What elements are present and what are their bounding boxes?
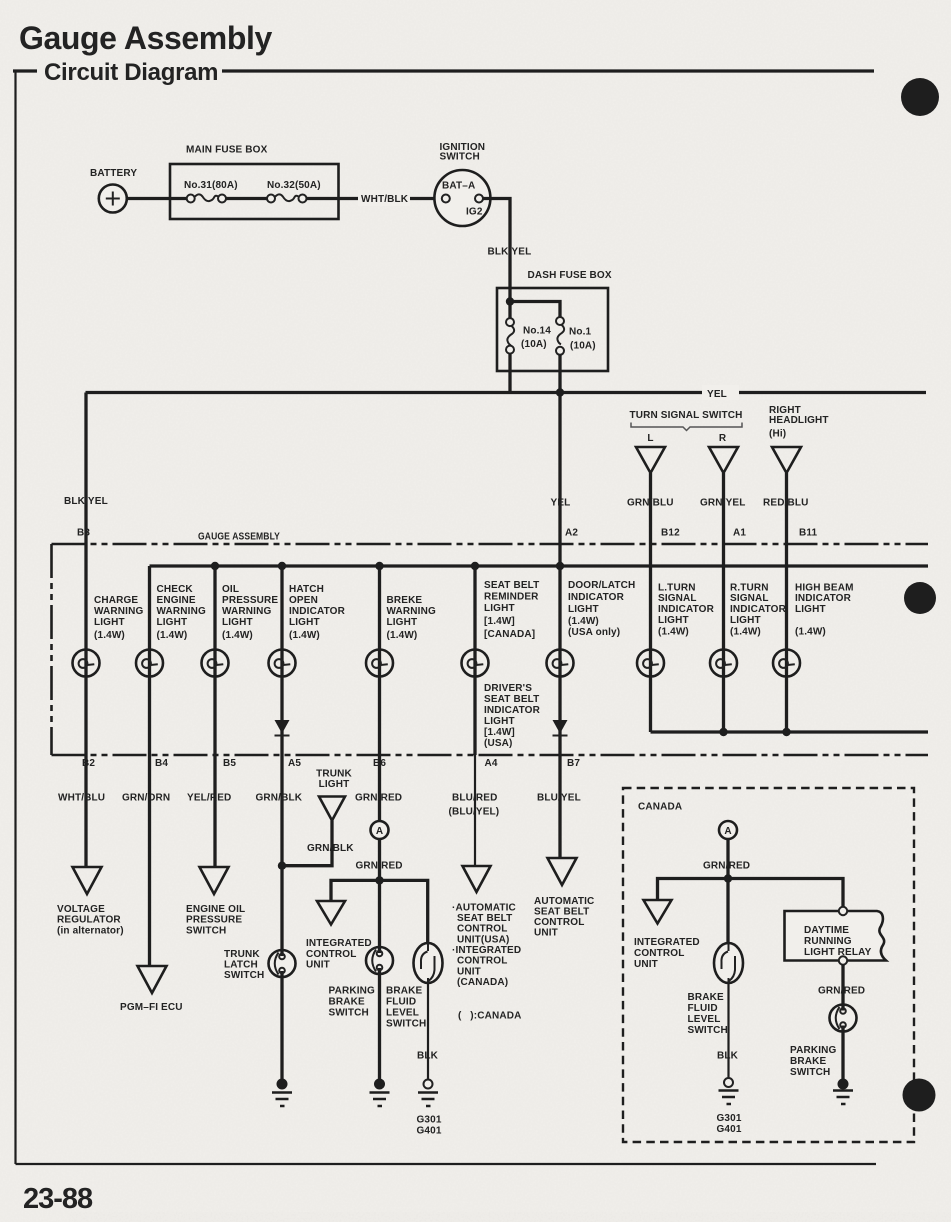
ground B6 column <box>370 1079 390 1107</box>
svg-text:A: A <box>724 826 731 837</box>
svg-text:A4: A4 <box>485 758 498 769</box>
junction bus at hatch column <box>278 562 286 570</box>
wire trunk light branch GRN/BLK <box>282 821 354 866</box>
svg-text:INTEGRATED: INTEGRATED <box>306 938 372 949</box>
registration dot bottom right <box>903 1079 936 1112</box>
svg-text:UNIT: UNIT <box>306 960 330 971</box>
svg-text:BREKE: BREKE <box>387 595 423 606</box>
svg-text:UNIT: UNIT <box>457 967 481 978</box>
svg-text:L.TURN: L.TURN <box>658 583 696 594</box>
svg-text:Gauge Assembly: Gauge Assembly <box>19 20 272 56</box>
svg-text:SIGNAL: SIGNAL <box>730 593 769 604</box>
junction bus at door latch column <box>556 562 564 570</box>
svg-text:LIGHT: LIGHT <box>568 604 599 615</box>
svg-text:CONTROL: CONTROL <box>457 956 508 967</box>
svg-text:BLK: BLK <box>717 1051 739 1062</box>
svg-text:(Hi): (Hi) <box>769 429 786 440</box>
fuse No.14 (10A) <box>506 318 551 354</box>
parking brake switch <box>366 947 393 974</box>
wire check engine column <box>148 566 151 755</box>
svg-text:R: R <box>719 433 727 444</box>
svg-text:[1.4W]: [1.4W] <box>484 616 515 627</box>
ground name G301 G401 <box>417 1115 442 1137</box>
wire BLK/YEL left feed to B3 and charge light <box>64 393 108 756</box>
fuse No.31 (80A) <box>184 180 238 203</box>
svg-text:No.1: No.1 <box>569 327 592 338</box>
wire RED/BLU headlight to B11 <box>763 473 809 732</box>
wire GRN/RED from connector A CANADA <box>703 839 750 944</box>
svg-text:INTEGRATED: INTEGRATED <box>634 937 700 948</box>
junction CANADA branch <box>724 874 732 882</box>
svg-text:RED/BLU: RED/BLU <box>763 498 809 509</box>
svg-text:SWITCH: SWITCH <box>688 1025 728 1036</box>
svg-text:BRAKE: BRAKE <box>329 997 365 1008</box>
wire inside dash fuse box to fuses <box>510 288 560 318</box>
svg-text:PARKING: PARKING <box>790 1045 836 1056</box>
svg-text:LIGHT: LIGHT <box>157 617 188 628</box>
header rule left tick <box>13 69 37 72</box>
svg-text:·AUTOMATIC: ·AUTOMATIC <box>452 903 516 914</box>
connector triangle CANADA integrated control unit <box>644 900 672 924</box>
svg-text:(USA only): (USA only) <box>568 627 620 638</box>
svg-text:HATCH: HATCH <box>289 584 324 595</box>
svg-text:[1.4W]: [1.4W] <box>484 727 515 738</box>
svg-text:No.32(50A): No.32(50A) <box>267 180 321 191</box>
wire GRN/RED B6 <box>355 755 402 1084</box>
fuse No.32 (50A) <box>267 180 321 203</box>
svg-text:SIGNAL: SIGNAL <box>658 593 697 604</box>
turn signal switch L connector triangle <box>636 447 665 473</box>
wire oil pressure column <box>213 566 216 755</box>
dash fuse box <box>497 270 612 371</box>
svg-text:CHECK: CHECK <box>157 584 194 595</box>
trunk light label <box>316 769 352 791</box>
L turn signal indicator light label <box>658 583 715 638</box>
svg-text:SEAT BELT: SEAT BELT <box>484 694 539 705</box>
svg-text:LIGHT: LIGHT <box>289 617 320 628</box>
wire GRN/YEL R turn to A1 <box>700 473 746 732</box>
svg-text:B2: B2 <box>82 758 95 769</box>
svg-text:CONTROL: CONTROL <box>634 948 685 959</box>
svg-text:GAUGE ASSEMBLY: GAUGE ASSEMBLY <box>198 532 280 543</box>
svg-text:REMINDER: REMINDER <box>484 592 539 603</box>
wire GRN/BLU L turn to B12 <box>627 473 674 732</box>
turn signal switch R connector triangle <box>709 447 738 473</box>
junction bottom bus R turn <box>719 728 727 736</box>
svg-text:23-88: 23-88 <box>23 1183 93 1215</box>
svg-text:LIGHT RELAY: LIGHT RELAY <box>804 947 872 958</box>
page frame left border <box>14 71 16 1164</box>
connector triangle to engine oil pressure switch <box>200 867 229 894</box>
svg-text:SWITCH: SWITCH <box>329 1008 369 1019</box>
CANADA integrated control unit label <box>634 937 700 970</box>
svg-text:GRN/RED: GRN/RED <box>356 861 403 872</box>
wire WHT/BLU B2 to voltage regulator <box>58 755 105 867</box>
svg-text:CONTROL: CONTROL <box>457 924 508 935</box>
svg-text:(1.4W): (1.4W) <box>289 630 320 641</box>
wire GRN/BLK A5 to trunk latch switch and ground <box>256 755 303 1084</box>
svg-text:INDICATOR: INDICATOR <box>484 705 541 716</box>
svg-text:TURN SIGNAL SWITCH: TURN SIGNAL SWITCH <box>629 410 742 421</box>
diode hatch open column <box>275 720 290 736</box>
trunk latch switch <box>269 950 296 977</box>
wire YEL/RED B5 to engine oil pressure switch <box>187 755 231 867</box>
svg-text:DOOR/LATCH: DOOR/LATCH <box>568 580 635 591</box>
svg-text:SEAT BELT: SEAT BELT <box>534 907 589 918</box>
bulb R turn signal indicator light <box>710 650 737 677</box>
svg-text:No.31(80A): No.31(80A) <box>184 180 238 191</box>
svg-text:CONTROL: CONTROL <box>534 917 585 928</box>
svg-text:SWITCH: SWITCH <box>790 1067 830 1078</box>
CANADA parking brake switch <box>830 1005 857 1032</box>
R turn signal indicator light label <box>730 583 787 638</box>
junction bus at brake warning column <box>375 562 383 570</box>
connector triangle to integrated control unit <box>317 901 345 925</box>
svg-text:OPEN: OPEN <box>289 595 318 606</box>
CANADA parking brake switch label <box>790 1045 836 1078</box>
seat belt reminder light label <box>484 580 539 640</box>
svg-text:OIL: OIL <box>222 584 239 595</box>
brake warning light label <box>387 595 436 641</box>
bulb charge warning light <box>73 650 100 677</box>
voltage regulator label <box>57 904 124 937</box>
svg-text:GRN/BLK: GRN/BLK <box>307 843 354 854</box>
main fuse box <box>170 145 339 220</box>
junction fuse No.1 wire and feed bus <box>556 388 564 396</box>
svg-text:TRUNK: TRUNK <box>224 949 260 960</box>
svg-text:IG2: IG2 <box>466 207 483 218</box>
svg-text:(1.4W): (1.4W) <box>568 616 599 627</box>
svg-text:A: A <box>376 826 383 837</box>
svg-text:(1.4W): (1.4W) <box>658 627 689 638</box>
bulb L turn signal indicator light <box>637 650 664 677</box>
registration dot top right <box>901 78 939 116</box>
daytime running light relay <box>785 907 887 965</box>
svg-text:GRN/BLK: GRN/BLK <box>256 793 303 804</box>
svg-text:SWITCH: SWITCH <box>386 1019 426 1030</box>
wire fuse No.1 down through feed bus (YEL to A2) <box>551 355 571 566</box>
svg-text:UNIT: UNIT <box>534 928 558 939</box>
CANADA brake fluid level switch label <box>688 992 728 1036</box>
svg-text:UNIT(USA): UNIT(USA) <box>457 935 509 946</box>
connector triangle to voltage regulator <box>73 867 102 894</box>
svg-text:SWITCH: SWITCH <box>224 970 264 981</box>
svg-text:A1: A1 <box>733 528 746 539</box>
svg-text:YEL: YEL <box>707 389 727 400</box>
svg-text:(BLU/YEL): (BLU/YEL) <box>449 807 500 818</box>
svg-text:WARNING: WARNING <box>94 606 143 617</box>
svg-text:HEADLIGHT: HEADLIGHT <box>769 415 829 426</box>
svg-text:G401: G401 <box>717 1124 742 1135</box>
svg-text:RUNNING: RUNNING <box>804 936 852 947</box>
svg-text:BRAKE: BRAKE <box>688 992 724 1003</box>
svg-text:G401: G401 <box>417 1126 442 1137</box>
registration dot middle right <box>904 582 936 614</box>
svg-text:TRUNK: TRUNK <box>316 769 352 780</box>
svg-text:BRAKE: BRAKE <box>790 1056 826 1067</box>
hatch open indicator light label <box>289 584 346 641</box>
svg-text:(1.4W): (1.4W) <box>795 627 826 638</box>
svg-text:B6: B6 <box>373 758 386 769</box>
svg-text:YEL/RED: YEL/RED <box>187 793 231 804</box>
engine oil pressure switch label <box>186 904 245 937</box>
svg-text:(1.4W): (1.4W) <box>222 630 253 641</box>
svg-text:INDICATOR: INDICATOR <box>730 604 787 615</box>
connector circle A on B6 wire <box>371 821 389 839</box>
CANADA wire BLK to ground <box>717 983 739 1078</box>
svg-text:WHT/BLU: WHT/BLU <box>58 793 105 804</box>
wire seat belt column <box>473 566 476 755</box>
svg-text:R.TURN: R.TURN <box>730 583 769 594</box>
svg-text:LIGHT: LIGHT <box>484 603 515 614</box>
svg-text:[CANADA]: [CANADA] <box>484 629 535 640</box>
svg-text:BATTERY: BATTERY <box>90 168 137 179</box>
svg-text:YEL: YEL <box>551 498 571 509</box>
svg-text:VOLTAGE: VOLTAGE <box>57 904 105 915</box>
diode door latch column <box>553 720 568 736</box>
CANADA ground name G301 G401 <box>717 1113 742 1135</box>
CANADA brake fluid level switch <box>714 943 743 983</box>
svg-text:LIGHT: LIGHT <box>319 779 350 790</box>
gauge assembly boundary left <box>50 544 53 755</box>
svg-text:DAYTIME: DAYTIME <box>804 925 849 936</box>
wire L turn indicator bottom bus <box>651 730 929 733</box>
connector circle A CANADA <box>719 821 737 839</box>
svg-text:LIGHT: LIGHT <box>484 716 515 727</box>
svg-text:G301: G301 <box>717 1113 742 1124</box>
brake fluid level switch label <box>386 986 426 1030</box>
svg-text:BLK/YEL: BLK/YEL <box>64 496 108 507</box>
svg-text:LEVEL: LEVEL <box>386 1008 419 1019</box>
wire battery to main fuse box <box>127 197 170 200</box>
wire GRN/ORN B4 to PGM-FI ECU <box>122 755 170 966</box>
wire between fuses <box>226 197 267 200</box>
svg-text:(1.4W): (1.4W) <box>157 630 188 641</box>
ignition switch <box>434 142 490 226</box>
svg-text:PGM–FI ECU: PGM–FI ECU <box>120 1002 183 1013</box>
svg-text:MAIN FUSE BOX: MAIN FUSE BOX <box>186 145 268 156</box>
wire BLU/RED A4 to automatic seat belt control unit <box>449 755 500 866</box>
wire into fuse No.31 <box>170 197 187 200</box>
svg-text:Circuit Diagram: Circuit Diagram <box>44 59 218 86</box>
svg-text:(10A): (10A) <box>521 339 547 350</box>
svg-text:WARNING: WARNING <box>222 606 271 617</box>
bulb seat belt reminder light <box>462 650 489 677</box>
svg-text:WARNING: WARNING <box>387 606 436 617</box>
junction B6 branch <box>375 876 383 884</box>
svg-text:PRESSURE: PRESSURE <box>186 915 242 926</box>
svg-text:FLUID: FLUID <box>386 997 416 1008</box>
svg-text:DRIVER'S: DRIVER'S <box>484 683 532 694</box>
svg-text:LIGHT: LIGHT <box>387 617 418 628</box>
wire ignition IG2 to dash fuse box <box>483 199 531 289</box>
svg-text:INDICATOR: INDICATOR <box>568 592 625 603</box>
scan shadow bottom edge <box>150 1213 951 1222</box>
svg-text:(1.4W): (1.4W) <box>387 630 418 641</box>
svg-text:B7: B7 <box>567 758 580 769</box>
svg-text:DASH FUSE BOX: DASH FUSE BOX <box>528 270 612 281</box>
wire branch to integrated control unit and brake fluid level switch <box>331 880 428 944</box>
svg-text:(1.4W): (1.4W) <box>730 627 761 638</box>
junction dash fuse box <box>506 297 514 305</box>
wire BLU/YEL B7 to automatic seat belt control unit <box>537 755 581 858</box>
wire hatch open column <box>280 566 283 755</box>
fuse No.1 (10A) <box>556 317 596 355</box>
svg-text:CONTROL: CONTROL <box>306 949 357 960</box>
svg-text:L: L <box>647 433 653 444</box>
bulb oil pressure warning light <box>202 650 229 677</box>
bulb door latch indicator light <box>547 650 574 677</box>
svg-text:GRN/YEL: GRN/YEL <box>700 498 746 509</box>
svg-text:B12: B12 <box>661 528 680 539</box>
svg-text:(in alternator): (in alternator) <box>57 926 124 937</box>
svg-text:PRESSURE: PRESSURE <box>222 595 278 606</box>
bulb check engine warning light <box>136 650 163 677</box>
wire fuse No.14 to main feed bus <box>508 354 511 393</box>
main feed bus YEL <box>86 385 927 400</box>
svg-text:SEAT BELT: SEAT BELT <box>457 913 512 924</box>
svg-text:(1.4W): (1.4W) <box>94 630 125 641</box>
svg-text:GRN/ORN: GRN/ORN <box>122 793 170 804</box>
wire BLK to ground G301 G401 <box>417 983 439 1080</box>
check engine warning light label <box>157 584 206 641</box>
automatic seat belt control unit (USA) label <box>452 903 521 989</box>
svg-text:(10A): (10A) <box>570 341 596 352</box>
svg-text:GRN/RED: GRN/RED <box>703 861 750 872</box>
integrated control unit label <box>306 938 372 971</box>
CANADA ground terminal <box>719 1078 739 1104</box>
svg-text:SEAT BELT: SEAT BELT <box>484 580 539 591</box>
svg-text:HIGH BEAM: HIGH BEAM <box>795 583 854 594</box>
right headlight connector triangle <box>772 447 801 473</box>
svg-text:GRN/RED: GRN/RED <box>818 986 865 997</box>
wire branch CANADA integrated control unit and relay <box>658 879 844 912</box>
wire brake warning column <box>378 566 381 755</box>
gauge assembly internal feed bus <box>150 564 929 567</box>
svg-text:UNIT: UNIT <box>634 959 658 970</box>
junction trunk branch on A5 wire <box>278 862 286 870</box>
ground A5 column <box>272 1079 292 1107</box>
right headlight label <box>769 405 829 440</box>
junction bottom bus high beam <box>782 728 790 736</box>
wire label GRN/RED below connector A <box>356 861 403 872</box>
connector triangle to PGM-FI ECU <box>138 966 167 993</box>
svg-text:GRN/RED: GRN/RED <box>355 793 402 804</box>
svg-text:·INTEGRATED: ·INTEGRATED <box>452 945 521 956</box>
trunk latch switch label <box>224 949 264 981</box>
svg-text:ENGINE: ENGINE <box>157 595 196 606</box>
gauge assembly boundary top <box>52 543 929 546</box>
svg-text:SWITCH: SWITCH <box>440 152 480 163</box>
automatic seat belt control unit label <box>534 896 594 939</box>
gauge assembly boundary bottom <box>52 754 929 757</box>
svg-text:No.14: No.14 <box>523 326 551 337</box>
svg-text:ENGINE OIL: ENGINE OIL <box>186 904 245 915</box>
svg-text:B4: B4 <box>155 758 168 769</box>
svg-text:BRAKE: BRAKE <box>386 986 422 997</box>
charge warning light label <box>94 595 143 641</box>
driver's seat belt indicator light label <box>484 683 541 749</box>
svg-text:LIGHT: LIGHT <box>658 615 689 626</box>
svg-text:( ):CANADA: ( ):CANADA <box>458 1011 521 1022</box>
svg-text:LEVEL: LEVEL <box>688 1014 721 1025</box>
svg-text:G301: G301 <box>417 1115 442 1126</box>
wire WHT/BLK fuse box to ignition switch <box>307 190 435 206</box>
svg-text:REGULATOR: REGULATOR <box>57 915 121 926</box>
svg-text:B5: B5 <box>223 758 236 769</box>
svg-text:CANADA: CANADA <box>638 802 682 813</box>
svg-text:LIGHT: LIGHT <box>222 617 253 628</box>
bulb high beam indicator light <box>773 650 800 677</box>
CANADA variant dashed box <box>623 788 914 1142</box>
ground terminal BLK column <box>418 1080 438 1107</box>
svg-text:BAT–A: BAT–A <box>442 181 475 192</box>
connector triangle B7 <box>548 858 577 885</box>
svg-text:FLUID: FLUID <box>688 1003 718 1014</box>
connector triangle A4 <box>463 866 491 892</box>
svg-text:BLK/YEL: BLK/YEL <box>488 247 532 258</box>
svg-text:SWITCH: SWITCH <box>186 926 226 937</box>
brake fluid level switch <box>414 943 443 983</box>
svg-text:BLU/YEL: BLU/YEL <box>537 793 581 804</box>
CANADA parking brake ground <box>833 1079 853 1105</box>
svg-text:WARNING: WARNING <box>157 606 206 617</box>
turn signal switch bracket <box>631 423 742 431</box>
svg-text:BLK: BLK <box>417 1051 439 1062</box>
svg-text:CHARGE: CHARGE <box>94 595 138 606</box>
svg-text:BLU/RED: BLU/RED <box>452 793 498 804</box>
svg-text:B11: B11 <box>799 528 818 539</box>
bulb hatch open indicator light <box>269 650 296 677</box>
svg-text:INDICATOR: INDICATOR <box>658 604 715 615</box>
header rule right segment <box>222 69 874 72</box>
svg-text:A5: A5 <box>288 758 301 769</box>
door latch indicator light label <box>568 580 635 638</box>
high beam indicator light label <box>795 583 854 638</box>
parking brake switch label <box>329 986 375 1019</box>
svg-text:LIGHT: LIGHT <box>94 617 125 628</box>
oil pressure warning light label <box>222 584 278 641</box>
svg-text:PARKING: PARKING <box>329 986 375 997</box>
svg-text:B3: B3 <box>77 528 90 539</box>
svg-text:AUTOMATIC: AUTOMATIC <box>534 896 594 907</box>
svg-text:LATCH: LATCH <box>224 960 258 971</box>
wire GRN/RED relay to parking brake switch <box>818 965 865 1085</box>
svg-text:LIGHT: LIGHT <box>795 604 826 615</box>
junction bus at oil pressure column <box>211 562 219 570</box>
svg-text:GRN/BLU: GRN/BLU <box>627 498 674 509</box>
bulb brake warning light <box>366 650 393 677</box>
battery <box>90 168 137 213</box>
svg-text:(USA): (USA) <box>484 738 513 749</box>
svg-text:WHT/BLK: WHT/BLK <box>361 194 409 205</box>
svg-text:INDICATOR: INDICATOR <box>795 593 852 604</box>
svg-text:INDICATOR: INDICATOR <box>289 606 346 617</box>
junction bus at seat belt column <box>471 562 479 570</box>
svg-text:(CANADA): (CANADA) <box>457 977 508 988</box>
connector triangle from trunk light <box>319 797 345 821</box>
svg-text:LIGHT: LIGHT <box>730 615 761 626</box>
page frame bottom border <box>16 1163 877 1165</box>
wire door latch column <box>558 566 561 755</box>
svg-text:A2: A2 <box>565 528 578 539</box>
